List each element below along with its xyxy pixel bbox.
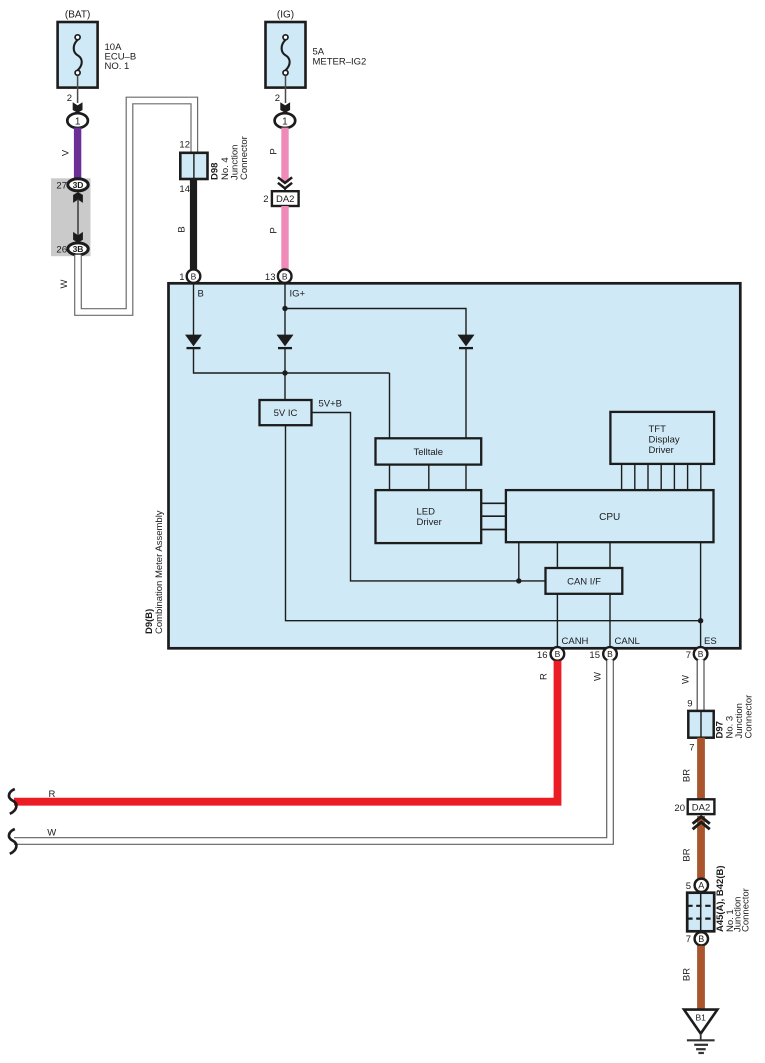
regulator U1 5V IC bbox=[260, 400, 312, 425]
node power bus junction bbox=[282, 370, 287, 375]
diode D2 (IG+ input) bbox=[277, 335, 294, 349]
meter pin 13 (B) bbox=[265, 269, 292, 283]
wire W (white) from 3B to D98 bbox=[59, 101, 194, 313]
wire diode D3 to telltale bbox=[465, 348, 467, 438]
fuse F2 (IG) 5A METER-IG2 bbox=[266, 10, 367, 88]
node CAN I/F supply junction bbox=[516, 578, 521, 583]
block CPU bbox=[506, 490, 714, 542]
connector DA2 pin 2 bbox=[263, 191, 298, 206]
svg-text:27: 27 bbox=[56, 180, 67, 191]
wire CPU to CAN I/F supply bbox=[518, 542, 520, 581]
wire between 3D and 3B bbox=[77, 199, 79, 236]
svg-text:2: 2 bbox=[67, 93, 72, 104]
wire W (white) ES to D97 bbox=[681, 660, 701, 712]
svg-text:V: V bbox=[61, 149, 72, 156]
wire 5V+B from 5V IC to CAN I/F bbox=[312, 413, 546, 581]
svg-text:B: B bbox=[698, 934, 704, 944]
svg-text:7: 7 bbox=[686, 934, 691, 945]
break symbol on wire W bbox=[9, 829, 16, 854]
junction connector D98 No.4 bbox=[179, 136, 250, 195]
inline connector chevrons below DA2 bbox=[693, 817, 710, 830]
svg-text:NO. 1: NO. 1 bbox=[105, 61, 130, 72]
svg-text:CAN I/F: CAN I/F bbox=[567, 577, 601, 588]
connector cavity 1 (IG feed) bbox=[275, 113, 296, 128]
block TFT Display Driver bbox=[610, 412, 714, 464]
svg-text:3D: 3D bbox=[73, 180, 84, 190]
wire V (violet) bbox=[61, 128, 78, 180]
svg-text:DA2: DA2 bbox=[276, 194, 294, 205]
ground point B1 bbox=[684, 1010, 717, 1034]
junction connector pin 7 (B) bbox=[686, 932, 708, 945]
svg-text:Driver: Driver bbox=[417, 517, 442, 528]
svg-text:Telltale: Telltale bbox=[414, 447, 444, 458]
wires TFT driver to CPU (7 lines) bbox=[622, 464, 701, 490]
svg-text:14: 14 bbox=[179, 184, 190, 195]
junction connector A45(A) B42(B) No.1 bbox=[687, 865, 751, 932]
svg-text:9: 9 bbox=[687, 699, 692, 710]
meter pin 7 (B) bbox=[686, 647, 708, 661]
svg-text:W: W bbox=[47, 827, 56, 838]
svg-text:P: P bbox=[269, 148, 280, 154]
svg-text:20: 20 bbox=[674, 803, 685, 814]
node IG+ branch junction bbox=[282, 306, 287, 311]
svg-text:1: 1 bbox=[179, 272, 184, 283]
block Telltale bbox=[376, 438, 482, 464]
junction connector D97 No.3 bbox=[687, 695, 754, 754]
cavity 3B bbox=[68, 243, 88, 255]
svg-text:B: B bbox=[698, 649, 704, 659]
inline connector chevrons into DA2 bbox=[278, 177, 292, 191]
svg-text:R: R bbox=[49, 789, 56, 800]
wires CAN I/F to CANH/CANL pins bbox=[557, 594, 610, 648]
svg-text:R: R bbox=[539, 673, 550, 680]
combination meter assembly D9(B) box bbox=[144, 283, 740, 648]
svg-text:13: 13 bbox=[265, 272, 276, 283]
svg-text:B1: B1 bbox=[695, 1013, 706, 1023]
wire B (black) from D98 to meter pin 1 bbox=[177, 179, 194, 270]
svg-text:BR: BR bbox=[682, 848, 693, 861]
wire BR (brown) A45 to ground bbox=[682, 946, 702, 1010]
wire BR (brown) D97 to DA2 bbox=[682, 738, 702, 800]
svg-text:Connector: Connector bbox=[741, 888, 752, 932]
svg-text:1: 1 bbox=[282, 116, 288, 127]
svg-text:5: 5 bbox=[686, 881, 691, 892]
svg-text:7: 7 bbox=[686, 650, 691, 661]
svg-text:LED: LED bbox=[417, 507, 436, 518]
wire ES vertical bbox=[700, 542, 702, 647]
svg-text:12: 12 bbox=[179, 140, 190, 151]
svg-text:3B: 3B bbox=[73, 244, 84, 254]
svg-text:Connector: Connector bbox=[239, 136, 250, 180]
wire power bus horizontal bbox=[194, 372, 390, 374]
bus lines LED Driver to CPU bbox=[481, 503, 506, 529]
wire fuse F2 output pin 2 bbox=[275, 76, 290, 113]
fuse F1 (BAT) 10A ECU-B NO.1 bbox=[58, 10, 137, 88]
svg-text:Combination Meter Assembly: Combination Meter Assembly bbox=[154, 510, 165, 634]
meter pin 15 (B) bbox=[589, 647, 616, 661]
diode D3 (telltale feed) bbox=[458, 335, 475, 349]
wire pin1 to diode D-B bbox=[193, 283, 195, 335]
svg-text:26: 26 bbox=[56, 244, 67, 255]
wire R (red) CANH bbox=[14, 661, 558, 802]
arrow up bbox=[73, 192, 83, 203]
svg-text:Display: Display bbox=[649, 435, 680, 446]
wire fuse F1 output pin 2 bbox=[67, 76, 83, 113]
svg-text:2: 2 bbox=[263, 194, 268, 205]
svg-text:BR: BR bbox=[682, 769, 693, 782]
svg-text:D98: D98 bbox=[210, 163, 221, 180]
meter pin 16 (B) bbox=[537, 647, 564, 661]
block LED Driver bbox=[376, 490, 482, 543]
junction connector pin 5 (A) bbox=[686, 879, 708, 892]
connector cavity 1 (BAT feed) bbox=[67, 113, 88, 128]
wire IG+ branch to right diode bbox=[285, 309, 466, 336]
svg-text:B: B bbox=[177, 226, 188, 232]
wire diode D1 to bus bbox=[193, 348, 195, 374]
diode D1 (B input) bbox=[185, 335, 202, 349]
block CAN I/F bbox=[546, 568, 623, 594]
svg-text:B: B bbox=[607, 649, 613, 659]
arrow down bbox=[73, 232, 83, 243]
svg-text:15: 15 bbox=[589, 650, 600, 661]
wire bus to telltale left bbox=[389, 373, 391, 438]
wire diode D2 to bus bbox=[284, 348, 286, 373]
svg-text:B: B bbox=[282, 272, 288, 282]
svg-text:7: 7 bbox=[689, 743, 694, 754]
svg-text:(BAT): (BAT) bbox=[65, 10, 90, 21]
svg-text:BR: BR bbox=[682, 968, 693, 981]
svg-text:5V IC: 5V IC bbox=[274, 408, 298, 419]
svg-text:METER–IG2: METER–IG2 bbox=[313, 57, 367, 68]
wire ground bus from 5V IC bbox=[286, 425, 701, 621]
svg-text:1: 1 bbox=[75, 116, 81, 127]
svg-text:(IG): (IG) bbox=[277, 10, 294, 21]
break symbol on wire R bbox=[9, 789, 16, 814]
svg-text:B: B bbox=[191, 272, 197, 282]
cavity 3D bbox=[68, 179, 88, 191]
wire BR (brown) DA2 to A45 bbox=[682, 816, 702, 879]
svg-text:P: P bbox=[269, 227, 280, 233]
svg-text:W: W bbox=[681, 675, 692, 684]
svg-text:2: 2 bbox=[275, 93, 280, 104]
junction block 3D/3B (gray) bbox=[51, 178, 91, 256]
wires CPU to CAN I/F bbox=[557, 542, 610, 568]
svg-text:16: 16 bbox=[537, 650, 548, 661]
wire bus to 5V IC bbox=[284, 373, 286, 400]
svg-text:TFT: TFT bbox=[649, 424, 667, 435]
svg-text:Driver: Driver bbox=[649, 445, 674, 456]
svg-text:5V+B: 5V+B bbox=[319, 399, 343, 410]
connector DA2 pin 20 bbox=[674, 799, 714, 814]
svg-text:ES: ES bbox=[704, 636, 717, 647]
svg-text:B: B bbox=[555, 649, 561, 659]
wire IG+ down bbox=[284, 283, 286, 335]
svg-text:CANH: CANH bbox=[562, 636, 589, 647]
wire W (white) CANL bbox=[13, 660, 610, 842]
svg-text:IG+: IG+ bbox=[290, 289, 306, 300]
svg-text:DA2: DA2 bbox=[692, 802, 710, 813]
svg-text:Connector: Connector bbox=[744, 695, 755, 739]
meter pin 1 (B) bbox=[179, 269, 200, 283]
svg-text:CPU: CPU bbox=[599, 512, 620, 523]
node ES junction bbox=[698, 618, 703, 623]
wire P (pink) lower segment bbox=[269, 206, 286, 270]
svg-text:W: W bbox=[59, 279, 70, 288]
wire P (pink) upper segment bbox=[269, 128, 286, 183]
wire telltale to LED driver (3 lines) bbox=[390, 465, 467, 491]
ground symbol bbox=[687, 1034, 715, 1053]
svg-text:CANL: CANL bbox=[615, 636, 640, 647]
svg-text:B: B bbox=[198, 289, 204, 300]
svg-text:W: W bbox=[593, 672, 604, 681]
svg-text:A: A bbox=[698, 881, 704, 891]
